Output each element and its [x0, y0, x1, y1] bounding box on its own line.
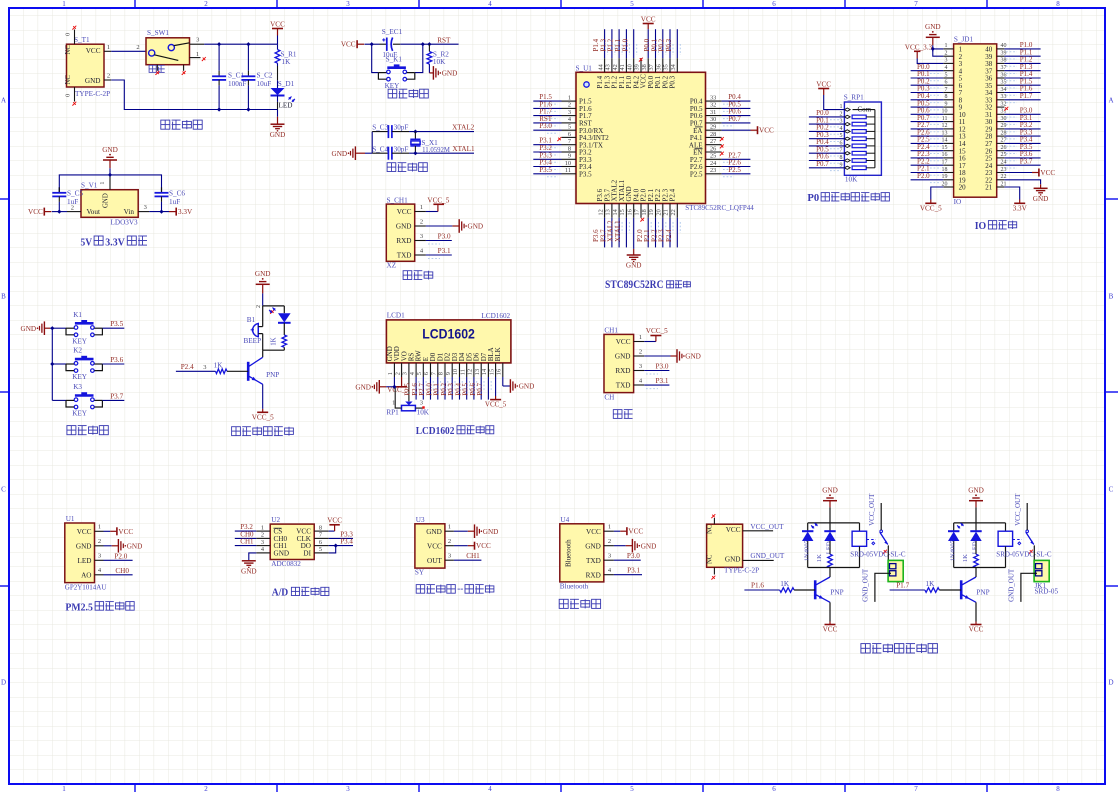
- svg-text:1K: 1K: [214, 361, 224, 369]
- pin 3 CH1 stub: [634, 370, 645, 372]
- svg-text:1: 1: [62, 785, 66, 792]
- svg-text:5: 5: [945, 72, 948, 78]
- svg-text:16: 16: [626, 209, 633, 215]
- svg-text:VCC: VCC: [586, 528, 601, 536]
- svg-text:16: 16: [942, 152, 948, 158]
- svg-text:NC: NC: [707, 524, 714, 534]
- capacitor S_EC1 10uF electrolytic: [380, 43, 387, 45]
- pin 3 U4 stub: [604, 559, 614, 561]
- svg-text:37: 37: [1001, 65, 1007, 71]
- svg-text:S_D1: S_D1: [278, 80, 295, 88]
- svg-text:20: 20: [942, 181, 948, 187]
- svg-text:34: 34: [670, 63, 677, 70]
- svg-text:2: 2: [608, 538, 611, 545]
- U1 bottom wires and net labels: [604, 218, 606, 248]
- svg-text:27: 27: [1001, 138, 1007, 144]
- svg-text:LCD1602: LCD1602: [416, 425, 455, 437]
- wire P3.4 adc: [329, 545, 353, 547]
- svg-text:3.3V: 3.3V: [1013, 205, 1028, 213]
- svg-text:KEY: KEY: [72, 337, 88, 345]
- svg-text:24: 24: [710, 160, 717, 167]
- svg-text:8: 8: [1056, 0, 1060, 8]
- connector S_CH1 download: [386, 204, 414, 261]
- svg-text:7: 7: [914, 0, 918, 8]
- wire P3.1 download: [426, 254, 452, 256]
- svg-text:8: 8: [1056, 785, 1060, 792]
- svg-text:4: 4: [945, 65, 948, 71]
- svg-text:13: 13: [474, 369, 481, 375]
- svg-text:GP2Y1014AU: GP2Y1014AU: [65, 584, 107, 592]
- pin 3 S_SW1 stub: [190, 43, 205, 45]
- wire CH1 adc: [235, 545, 256, 547]
- 3.3V symbol JD1 pin21: [1004, 187, 1019, 200]
- U1 top wires and net labels: [604, 29, 606, 58]
- pin 1 LDO GND stub: [109, 175, 111, 190]
- svg-text:S_CH1: S_CH1: [387, 196, 409, 204]
- svg-text:1: 1: [62, 0, 66, 8]
- svg-text:P0.7: P0.7: [476, 383, 484, 396]
- svg-text:GND: GND: [270, 131, 286, 139]
- svg-text:PM2.5: PM2.5: [65, 601, 93, 613]
- pin 4 U4 stub: [604, 574, 614, 576]
- svg-text:14: 14: [612, 208, 619, 215]
- key branch wire: [50, 327, 66, 329]
- beep bottom node: [263, 349, 285, 351]
- LED branch alarm: [283, 306, 285, 313]
- svg-text:P1.7: P1.7: [896, 582, 909, 590]
- svg-text:1: 1: [448, 524, 451, 531]
- capacitor S_C1 100nF: [218, 44, 220, 71]
- svg-text:41: 41: [619, 64, 626, 70]
- svg-text:OUT: OUT: [427, 557, 442, 565]
- svg-text:C: C: [1, 486, 6, 494]
- svg-text:GND: GND: [1033, 195, 1049, 203]
- svg-text:GND: GND: [103, 193, 110, 208]
- svg-text:STC89C52RC: STC89C52RC: [605, 279, 664, 291]
- svg-text:Vin: Vin: [124, 208, 135, 216]
- title 电源电路: [161, 120, 202, 129]
- svg-text:LDO3V3: LDO3V3: [111, 219, 139, 227]
- connector TYPE-C-2P relay power: [707, 524, 743, 567]
- pin 3 U3 stub: [445, 559, 454, 561]
- svg-text:VCC_5: VCC_5: [646, 327, 668, 335]
- svg-text:25: 25: [710, 153, 716, 160]
- svg-text:2: 2: [261, 532, 264, 539]
- GND symbol adc: [249, 553, 256, 561]
- svg-text:14: 14: [942, 138, 948, 144]
- wire switch to terminal: [1034, 546, 1037, 567]
- svg-text:TXD: TXD: [616, 382, 631, 390]
- svg-text:P3.5: P3.5: [539, 166, 552, 174]
- LCD GND wire left: [393, 377, 395, 387]
- no-connect X relay switch: [883, 550, 887, 554]
- svg-text:30pF: 30pF: [394, 145, 409, 153]
- svg-text:35: 35: [1001, 80, 1007, 86]
- pin 0 bottom of S_T1: [74, 87, 76, 102]
- svg-text:P0.3: P0.3: [665, 38, 673, 51]
- svg-text:S_C6: S_C6: [169, 190, 185, 198]
- GND symbol U3: [454, 530, 468, 532]
- svg-text:RXD: RXD: [396, 237, 411, 245]
- diode 1N4007 relay: [807, 523, 809, 531]
- svg-text:GND: GND: [255, 270, 271, 278]
- svg-text:P1.0: P1.0: [621, 38, 629, 51]
- GND symbol PM2.5: [104, 545, 112, 547]
- svg-text:GND_OUT: GND_OUT: [1008, 568, 1016, 602]
- svg-text:LCD1: LCD1: [387, 311, 405, 319]
- no-connect X on P4.0 pin: [640, 218, 644, 222]
- GND symbol keys: [43, 321, 45, 335]
- terminal block connector: [1034, 560, 1049, 581]
- svg-text:0: 0: [65, 94, 72, 97]
- svg-text:44: 44: [597, 63, 604, 70]
- svg-text:3: 3: [568, 109, 571, 116]
- svg-text:GND: GND: [76, 542, 92, 550]
- svg-text:GND: GND: [585, 542, 601, 550]
- svg-text:8: 8: [945, 94, 948, 100]
- svg-text:GND: GND: [615, 353, 631, 361]
- svg-text:P1.7: P1.7: [1020, 92, 1033, 100]
- svg-text:GND: GND: [102, 146, 118, 154]
- title 声音检测--模拟量: [416, 585, 455, 594]
- svg-text:7: 7: [945, 87, 948, 93]
- svg-text:6: 6: [423, 372, 430, 375]
- svg-text:SRD-05: SRD-05: [1035, 587, 1059, 595]
- wire CH0 PM2.5: [104, 574, 133, 576]
- wire P3.7: [102, 399, 124, 401]
- junction DO DI: [334, 544, 338, 548]
- junction pot to GND wire: [392, 385, 396, 389]
- title 复位电路: [388, 89, 428, 98]
- relay bottom rail: [954, 567, 1006, 569]
- wire P3.0 serial: [644, 370, 669, 372]
- svg-text:VCC: VCC: [759, 127, 774, 135]
- pin 0 top relay connector: [713, 518, 715, 524]
- svg-text:NC: NC: [65, 75, 72, 85]
- svg-text:11: 11: [459, 369, 466, 375]
- svg-text:8: 8: [568, 145, 571, 152]
- svg-text:RXD: RXD: [586, 571, 601, 579]
- title 声光报警电路: [232, 427, 294, 436]
- U1 right wires and net labels: [722, 100, 751, 102]
- svg-text:P0.7: P0.7: [728, 115, 741, 123]
- svg-text:S_K1: S_K1: [386, 55, 403, 63]
- svg-text:B: B: [1, 293, 6, 301]
- svg-text:35: 35: [663, 64, 670, 70]
- svg-text:LED: LED: [78, 557, 92, 565]
- svg-text:5: 5: [319, 546, 322, 553]
- svg-text:23: 23: [1001, 167, 1007, 173]
- svg-text:GND: GND: [396, 223, 412, 231]
- svg-text:1uF: 1uF: [169, 198, 180, 206]
- svg-text:CH: CH: [604, 394, 614, 402]
- svg-text:XTAL1: XTAL1: [452, 145, 475, 153]
- wire P3.3 adc: [329, 537, 353, 539]
- svg-text:K3: K3: [73, 383, 82, 391]
- VCC symbol U3: [454, 545, 468, 547]
- buzzer B1 BEEP: [253, 323, 259, 336]
- svg-text:S_JD1: S_JD1: [954, 36, 974, 44]
- svg-text:100nF: 100nF: [228, 80, 246, 88]
- U2 right stubs: [314, 530, 329, 532]
- svg-text:2: 2: [945, 51, 948, 57]
- svg-text:11: 11: [565, 167, 571, 174]
- no-connect X on pins 28 27 26: [720, 137, 724, 141]
- svg-text:LCD1602: LCD1602: [481, 312, 510, 320]
- svg-text:P3.0: P3.0: [627, 552, 640, 560]
- capacitor S_C2 10uF: [247, 44, 249, 71]
- svg-text:S_SW1: S_SW1: [147, 29, 169, 37]
- svg-text:10K: 10K: [845, 176, 858, 184]
- svg-text:14: 14: [481, 368, 488, 375]
- svg-text:5: 5: [630, 785, 634, 792]
- wire GND_OUT relay: [875, 573, 891, 602]
- potentiometer RP1 10K: [405, 402, 412, 406]
- svg-text:RST: RST: [437, 36, 451, 44]
- key switch S_K1: [387, 66, 406, 69]
- svg-text:4: 4: [488, 0, 492, 8]
- svg-text:28: 28: [1001, 130, 1007, 136]
- svg-text:P3.4: P3.4: [340, 538, 353, 546]
- svg-text:15: 15: [488, 369, 495, 375]
- svg-text:VCC: VCC: [823, 625, 838, 633]
- svg-text:38: 38: [1001, 58, 1007, 64]
- svg-text:CH1: CH1: [604, 326, 618, 334]
- svg-text:GND: GND: [127, 542, 143, 550]
- junction key K1: [50, 326, 54, 330]
- svg-text:3: 3: [203, 364, 206, 371]
- svg-text:P2.0: P2.0: [917, 172, 930, 180]
- svg-text:SRD-05VDC-SL-C: SRD-05VDC-SL-C: [996, 551, 1052, 559]
- pin 2 S_CH1 stub: [415, 225, 426, 227]
- LED S_D1: [277, 80, 279, 88]
- svg-text:P2.0: P2.0: [114, 552, 127, 560]
- VCC symbol adc: [329, 530, 335, 532]
- svg-text:22: 22: [670, 209, 677, 215]
- wire VCC_OUT from connector: [743, 530, 774, 532]
- U2 left stubs: [256, 530, 270, 532]
- wire VCC to Com pin: [824, 95, 845, 110]
- U1 bottom pin stubs and names: [604, 204, 606, 218]
- svg-text:36: 36: [656, 64, 663, 70]
- svg-text:40: 40: [1001, 43, 1007, 49]
- svg-text:29: 29: [1001, 123, 1007, 129]
- svg-text:SRD-05VDC-SL-C: SRD-05VDC-SL-C: [850, 551, 906, 559]
- svg-text:S_C4: S_C4: [372, 145, 388, 153]
- resistor network S_RP1: [844, 102, 881, 175]
- VCC_5 symbol LCD pin2: [401, 377, 403, 387]
- svg-text:12: 12: [942, 123, 948, 129]
- transistor PNP alarm: [247, 362, 250, 381]
- svg-text:3.3V: 3.3V: [105, 236, 125, 248]
- svg-text:GND_OUT: GND_OUT: [862, 568, 870, 602]
- svg-text:P3.5: P3.5: [110, 320, 123, 328]
- VCC_5 symbol LCD pin15: [495, 377, 497, 396]
- svg-text:7: 7: [319, 532, 322, 539]
- svg-text:TXD: TXD: [586, 557, 601, 565]
- svg-text:6: 6: [772, 785, 776, 792]
- svg-text:GND: GND: [822, 487, 838, 495]
- pin 2 CH1 stub: [634, 355, 645, 357]
- wire P3.5: [102, 327, 124, 329]
- svg-text:6: 6: [772, 0, 776, 8]
- GND symbol LCD right: [503, 385, 511, 387]
- svg-text:P0: P0: [807, 192, 819, 204]
- svg-text:P3.0: P3.0: [656, 363, 669, 371]
- pin 2 U3 stub: [445, 545, 454, 547]
- svg-text:19: 19: [942, 174, 948, 180]
- label 开关 under switch: [149, 65, 165, 72]
- pin 4 CH1 stub: [634, 384, 645, 386]
- svg-text:1: 1: [99, 181, 106, 184]
- svg-text:39: 39: [634, 64, 641, 70]
- resistor 1K relay vertical: [829, 541, 831, 554]
- wire P3.2 adc: [235, 530, 256, 532]
- VCC symbol at EA pin: [722, 129, 751, 131]
- RP1 resistor elements: [852, 115, 866, 119]
- svg-text:30: 30: [1001, 116, 1007, 122]
- RP1 common rail: [874, 110, 876, 168]
- IC U3 sound sensor: [415, 524, 445, 568]
- wire P3.0 U4: [614, 559, 641, 561]
- svg-text:10uF: 10uF: [257, 80, 272, 88]
- GND symbol relay top: [975, 494, 977, 496]
- capacitor S_C6 1uF: [161, 187, 163, 192]
- capacitor S_C5 1uF: [58, 187, 60, 192]
- resistor S_R2 10K: [428, 44, 430, 51]
- diode 1N4007 relay: [953, 523, 955, 531]
- svg-text:S_U1: S_U1: [576, 65, 593, 73]
- svg-text:23: 23: [710, 167, 716, 174]
- svg-text:3: 3: [346, 0, 350, 8]
- svg-text:2: 2: [107, 73, 110, 80]
- no-connect X near beep node: [270, 310, 274, 314]
- svg-text:VCC: VCC: [816, 80, 831, 88]
- capacitor S_C4 30pF: [372, 152, 388, 154]
- svg-text:3: 3: [98, 553, 101, 560]
- svg-text:IO: IO: [975, 220, 987, 232]
- svg-text:2: 2: [204, 785, 208, 792]
- VCC symbol JD1 pin23: [1004, 172, 1032, 174]
- svg-text:9: 9: [568, 153, 571, 160]
- svg-text:P2.4: P2.4: [665, 229, 673, 242]
- svg-text:9: 9: [945, 101, 948, 107]
- LCD data wires and labels: [415, 377, 417, 400]
- GND symbol U4: [614, 545, 626, 547]
- junction K1 left branch: [370, 42, 374, 46]
- JD1 left wires P0/P2: [911, 70, 944, 72]
- wire P3.0 download: [426, 240, 452, 242]
- LED relay: [975, 523, 977, 531]
- svg-text:1: 1: [639, 334, 642, 341]
- svg-text:CH1: CH1: [240, 538, 254, 546]
- IC LCD1 LCD1602 body: [386, 320, 511, 363]
- pin 1 S_SW1 unconnected: [190, 57, 201, 59]
- GND symbol download: [426, 225, 453, 227]
- svg-text:VCC: VCC: [1040, 169, 1055, 177]
- key K3: [75, 394, 94, 397]
- svg-text:37: 37: [648, 64, 655, 70]
- svg-text:3: 3: [639, 363, 642, 370]
- svg-text:P2.5: P2.5: [690, 170, 703, 178]
- svg-text:P2.5: P2.5: [728, 166, 741, 174]
- svg-text:10: 10: [565, 160, 571, 167]
- LCD pin stubs names numbers: [393, 363, 395, 377]
- svg-text:38: 38: [641, 64, 648, 70]
- svg-text:VCC: VCC: [86, 47, 101, 55]
- U1 top pin stubs and names: [604, 58, 606, 72]
- connector S_JD1 body: [954, 44, 997, 197]
- power GND symbol bottom: [277, 110, 279, 117]
- svg-text:VCC: VCC: [616, 338, 631, 346]
- svg-text:VCC_5: VCC_5: [485, 401, 507, 409]
- svg-text:XTAL2: XTAL2: [452, 123, 475, 131]
- svg-text:21: 21: [663, 209, 670, 215]
- svg-text:PNP: PNP: [976, 588, 989, 596]
- pin 1 S_CH1 stub: [415, 211, 426, 213]
- svg-text:KEY: KEY: [385, 82, 401, 90]
- svg-text:33: 33: [1001, 94, 1007, 100]
- svg-text:VCC: VCC: [427, 542, 442, 550]
- pin 1 CH1 stub: [634, 341, 645, 343]
- GND symbol above JD1: [932, 31, 934, 33]
- svg-text:1K: 1K: [816, 554, 823, 562]
- svg-text:VCC_OUT: VCC_OUT: [868, 493, 876, 526]
- base wire relay with 1K: [890, 589, 925, 591]
- GND symbol reset: [429, 72, 433, 74]
- wire K1 right leg: [415, 44, 423, 72]
- svg-text:3: 3: [448, 553, 451, 560]
- svg-text:8: 8: [319, 524, 322, 531]
- junction above LDO: [108, 173, 112, 177]
- svg-text:1: 1: [840, 104, 843, 110]
- relay top rail: [954, 522, 1006, 524]
- svg-text:VCC: VCC: [270, 20, 285, 28]
- svg-text:XZ: XZ: [387, 262, 397, 270]
- capacitor S_C3 30pF: [372, 131, 388, 133]
- svg-text:3: 3: [144, 204, 147, 211]
- svg-text:3: 3: [261, 539, 264, 546]
- connector S_T1 TYPE-C-2P: [67, 44, 105, 87]
- svg-text:D: D: [1, 679, 6, 687]
- LCD VO wire to pot: [408, 377, 410, 401]
- svg-text:D: D: [1108, 679, 1113, 687]
- svg-text:2: 2: [394, 372, 401, 375]
- resistor 1K relay vertical: [975, 541, 977, 554]
- svg-text:19: 19: [648, 209, 655, 215]
- svg-text:LED: LED: [825, 541, 832, 554]
- svg-text:DI: DI: [303, 550, 311, 558]
- svg-text:6: 6: [568, 131, 571, 138]
- relay switch contact: [867, 539, 876, 541]
- svg-text:1K: 1K: [780, 580, 790, 588]
- svg-text:1K: 1K: [282, 58, 292, 66]
- svg-text:2: 2: [639, 348, 642, 355]
- junction K1 right branch: [421, 42, 425, 46]
- svg-text:5: 5: [416, 372, 423, 375]
- wire P3.6: [102, 363, 124, 365]
- LCD BLK wire right: [502, 377, 504, 386]
- wire CH1 U3: [454, 559, 482, 561]
- VCC symbol U4: [614, 530, 620, 532]
- svg-text:P2.4: P2.4: [181, 363, 194, 371]
- svg-text:11: 11: [942, 116, 948, 122]
- svg-text:2: 2: [448, 538, 451, 545]
- svg-text:S_EC1: S_EC1: [382, 28, 403, 36]
- regulator S_V1 LDO3V3: [81, 190, 138, 218]
- svg-text:P3.0: P3.0: [539, 122, 552, 130]
- svg-text:43: 43: [605, 64, 612, 70]
